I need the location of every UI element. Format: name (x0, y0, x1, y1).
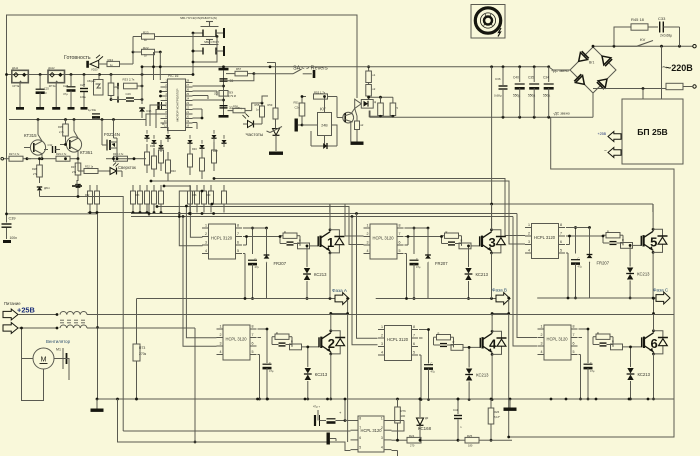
wire ch4 pin2 feed (357, 214, 378, 339)
svg-text:R63: R63 (135, 194, 140, 197)
svg-text:КС213: КС213 (638, 372, 651, 377)
svg-text:5: 5 (399, 249, 401, 253)
diode VD FR207 ch3 (425, 228, 448, 299)
svg-text:8: 8 (413, 325, 415, 329)
transistor VT5 IGBT (641, 228, 667, 254)
zener VD KC213 ch4 (465, 346, 489, 400)
svg-text:КР 5в: КР 5в (49, 84, 56, 88)
svg-text:R76: R76 (401, 409, 407, 413)
op-amp U9 HCPL3120 bottom (351, 416, 392, 452)
wire emitter ch1 (329, 253, 331, 299)
svg-text:7: 7 (413, 334, 415, 338)
svg-text:ДА11: ДА11 (12, 66, 19, 70)
wire emitter down ch4 (427, 354, 493, 401)
svg-text:КТ361: КТ361 (80, 150, 93, 155)
svg-text:С: С (590, 361, 592, 365)
svg-text:С2п: С2п (295, 106, 301, 110)
wire -DC rail (370, 111, 593, 119)
voltage regulator DA2 (48, 66, 65, 88)
wire top-left frame (7, 15, 358, 214)
capacitor C33b (88, 108, 100, 120)
svg-text:R: R (438, 332, 440, 336)
wire pin8 ch4 (419, 328, 430, 355)
wire vertical x160 (159, 52, 161, 80)
svg-text:С: С (431, 362, 433, 366)
svg-text:С: С (578, 257, 580, 261)
svg-text:3: 3 (381, 436, 383, 440)
svg-text:6: 6 (237, 241, 239, 245)
svg-text:⊥: ⊥ (427, 261, 429, 264)
transistor VT2 IGBT (319, 329, 345, 355)
logo ring (475, 8, 500, 33)
resistor R57 (226, 67, 255, 81)
resistor R24b (392, 434, 459, 448)
wire collector ch3 (491, 204, 493, 230)
svg-text:1: 1 (327, 235, 334, 250)
svg-text:С34: С34 (543, 76, 549, 80)
label -DC zveno (553, 112, 570, 116)
capacitor C ch1 (248, 227, 259, 300)
svg-text:R69: R69 (206, 194, 211, 197)
core dashes (60, 320, 87, 323)
resistor R gate ch4 (434, 332, 481, 351)
resistor R27 (1, 152, 31, 161)
svg-text:100: 100 (401, 414, 406, 418)
svg-text:SB1 ПУСК(ON)РАБОТА(N): SB1 ПУСК(ON)РАБОТА(N) (180, 16, 217, 20)
IC U1 right pins (186, 79, 193, 128)
svg-text:R35: R35 (58, 125, 63, 129)
svg-text:47µ +: 47µ + (313, 405, 320, 409)
svg-text:R25: R25 (467, 434, 473, 438)
svg-text:7: 7 (252, 333, 254, 337)
svg-text:6: 6 (560, 240, 562, 244)
fan motor M1 (24, 339, 71, 369)
svg-text:7: 7 (237, 232, 239, 236)
svg-text:С: С (269, 361, 271, 365)
capacitor C30 plate (159, 102, 167, 109)
wire collector ch6 (652, 297, 655, 331)
transistor VT1 IGBT (318, 228, 344, 254)
svg-text:С41: С41 (453, 408, 459, 412)
svg-text:Фаза С: Фаза С (653, 288, 669, 293)
wire 220V top (613, 45, 697, 48)
wire top rail left end (141, 65, 144, 86)
svg-text:3: 3 (489, 235, 496, 250)
label SB1 (180, 16, 217, 20)
capacitor C21 33 (220, 79, 234, 83)
svg-text:С33: С33 (658, 16, 666, 21)
svg-text:3: 3 (367, 241, 369, 245)
resistor R54 (366, 65, 376, 82)
svg-text:47µ: 47µ (431, 370, 436, 374)
wire xtal column (222, 71, 225, 117)
wire bottom bus y399 (96, 398, 674, 401)
wire fan drop (20, 327, 23, 359)
svg-text:47µ: 47µ (590, 369, 595, 373)
wire pins67 ch5 (566, 235, 604, 245)
svg-text:R32 1к: R32 1к (85, 165, 94, 169)
wire IC pin drops (146, 90, 168, 130)
capacitor C42 (313, 405, 326, 427)
node Фаза С (653, 288, 670, 305)
svg-text:к1: к1 (373, 73, 376, 77)
resistor R25b (458, 434, 512, 448)
svg-text:1: 1 (381, 417, 383, 421)
wire ch6 pin3 feed (513, 217, 537, 347)
svg-text:Частоты: Частоты (246, 132, 264, 137)
svg-text:+25В: +25В (598, 132, 607, 136)
op-amp U4 HCPL3120 (378, 325, 418, 360)
svg-text:R33 2,7к: R33 2,7к (123, 78, 136, 82)
capacitor C22 bottom bar (219, 115, 229, 118)
transistor VT3 IGBT (480, 228, 506, 254)
svg-text:R37: R37 (71, 165, 76, 169)
svg-text:Фаза В: Фаза В (492, 288, 507, 293)
capacitor C39 (2, 214, 18, 243)
resistor R32 (78, 159, 110, 174)
diode VD19 (75, 175, 80, 198)
resistor bank lower (85, 185, 227, 213)
ground DA2 (52, 83, 60, 110)
svg-text:R45 18: R45 18 (631, 17, 645, 22)
svg-text:R: R (597, 331, 599, 335)
svg-text:С35: С35 (528, 76, 534, 80)
resistor R gate ch2 (272, 331, 319, 350)
svg-text:С40: С40 (513, 76, 519, 80)
svg-text:FR207: FR207 (597, 261, 610, 266)
wire +DC down (491, 67, 493, 230)
svg-text:R: R (446, 230, 448, 234)
wire xtal pin b (193, 99, 224, 101)
arrow minus PSU (608, 148, 621, 158)
svg-text:-ДС звено: -ДС звено (553, 112, 570, 116)
svg-text:3: 3 (220, 342, 222, 346)
svg-text:R: R (453, 340, 455, 344)
switch SA (254, 69, 314, 78)
ground Q3 (351, 122, 364, 145)
wire gate bus y204 (211, 203, 364, 236)
svg-text:4: 4 (528, 249, 530, 253)
wire collector ch1 (329, 204, 331, 230)
svg-text:С32: С32 (48, 143, 53, 147)
svg-text:100н: 100н (80, 95, 86, 99)
wire bridge bottom to -DC (592, 93, 594, 117)
wire pin8 ch1 (243, 227, 268, 230)
svg-text:24В: 24В (321, 124, 328, 128)
wire ch2 pin2 feed (185, 205, 217, 338)
wire emitter ch5 (652, 252, 654, 298)
svg-text:М: М (41, 357, 47, 364)
capacitor C ch5 (571, 226, 582, 299)
wire bus y431 (123, 430, 350, 432)
zener VD17 (37, 187, 50, 197)
wire opto loop (367, 96, 394, 118)
ground pot (269, 152, 283, 155)
wire pin5 drop ch4 (419, 355, 422, 401)
zener VD KC213 ch6 (627, 346, 651, 400)
LED VD18 overcurrent (110, 163, 136, 178)
transistor Q3 (332, 97, 355, 124)
diode VD16 (139, 86, 152, 118)
label Готовность (64, 55, 91, 61)
svg-text:⊥: ⊥ (589, 261, 591, 264)
svg-text:КС213: КС213 (637, 272, 650, 277)
inductor L2 (18, 325, 195, 329)
ground bottom mid (504, 399, 517, 411)
svg-text:2: 2 (220, 333, 222, 337)
svg-text:HCPL 3120: HCPL 3120 (387, 337, 409, 342)
zener VD KC168 (417, 398, 432, 442)
svg-text:3,79 М: 3,79 М (228, 94, 236, 98)
wire 220V bottom (593, 85, 696, 90)
svg-text:Д0: Д0 (425, 416, 429, 420)
svg-text:3: 3 (528, 240, 530, 244)
svg-text:R28: R28 (32, 167, 37, 171)
battery bar KV (295, 119, 304, 132)
svg-text:550µ: 550µ (528, 94, 535, 98)
wire bridge left to +DC (549, 67, 570, 70)
ground mid bank (72, 180, 82, 186)
label SA Revers (293, 66, 328, 72)
op-amp U6 HCPL3120 (538, 325, 578, 360)
capacitor C40 (513, 67, 525, 117)
svg-text:FR207: FR207 (435, 261, 448, 266)
wire C39 bus (5, 213, 97, 216)
wire coil return drop (194, 328, 197, 443)
svg-text:R73: R73 (139, 346, 145, 350)
svg-text:R: R (299, 239, 301, 243)
svg-text:C27: C27 (80, 83, 86, 87)
svg-text:Вентилятор: Вентилятор (46, 339, 71, 344)
wire vertical x153.5 (153, 52, 155, 80)
svg-text:HCPL 3120: HCPL 3120 (211, 236, 233, 241)
svg-text:47µ: 47µ (255, 265, 260, 269)
svg-text:+25В: +25В (17, 306, 35, 315)
svg-text:R22: R22 (143, 46, 149, 50)
svg-text:1: 1 (541, 325, 543, 329)
svg-text:КС213: КС213 (315, 372, 328, 377)
svg-text:КС168: КС168 (418, 426, 432, 431)
svg-text:1µ 50в: 1µ 50в (88, 108, 97, 112)
wire pins67 ch3 (405, 235, 443, 245)
wire VD17 line (40, 197, 124, 432)
svg-text:8: 8 (560, 223, 562, 227)
svg-text:R68: R68 (192, 194, 197, 197)
svg-text:1: 1 (528, 223, 530, 227)
LED VD frequency (243, 114, 263, 128)
resistor R61 (390, 103, 398, 116)
capacitor C35 (528, 67, 539, 117)
resistor R55 (366, 83, 376, 100)
svg-text:2х0,68µ: 2х0,68µ (660, 34, 672, 38)
wire emitter bus ch5 (537, 253, 668, 299)
pushbutton SB1 (192, 22, 224, 39)
svg-text:47µ: 47µ (269, 369, 274, 373)
wire rail y119 (9, 118, 146, 121)
diode VD KV (311, 125, 337, 149)
wire emitter down ch6 (587, 354, 655, 401)
svg-text:6: 6 (359, 436, 361, 440)
inductor L1 (18, 312, 87, 316)
wire emitter down ch2 (266, 354, 333, 401)
svg-text:к2: к2 (373, 87, 376, 91)
svg-text:БП 25В: БП 25В (637, 127, 668, 137)
svg-text:2: 2 (381, 334, 383, 338)
ground bottom left (91, 399, 104, 412)
node Фаза В (492, 288, 510, 305)
svg-text:С36: С36 (495, 77, 501, 81)
svg-text:R: R (622, 238, 624, 242)
resistor R23 (133, 31, 218, 43)
crystal ZQ1 (214, 91, 236, 98)
capacitor C ch3 (410, 227, 421, 300)
label ~220V (662, 62, 693, 73)
label Частоты (246, 132, 264, 137)
arrow 0V (3, 323, 18, 334)
svg-text:5: 5 (573, 350, 575, 354)
svg-text:Фаза А: Фаза А (332, 288, 348, 293)
svg-text:С: С (255, 257, 257, 261)
svg-text:2: 2 (381, 426, 383, 430)
svg-text:PIC 16: PIC 16 (168, 74, 178, 78)
svg-text:7: 7 (560, 232, 562, 236)
label SB2 (204, 40, 219, 44)
svg-text:6: 6 (413, 342, 415, 346)
resistor R gate ch3 (442, 230, 480, 249)
label +DC zveno (551, 69, 569, 73)
svg-text:R: R (276, 331, 278, 335)
svg-text:550µ: 550µ (543, 94, 550, 98)
svg-text:R40: R40 (171, 169, 176, 173)
svg-text:4: 4 (381, 351, 383, 355)
svg-text:R: R (291, 340, 293, 344)
wire pin8 ch2 (258, 328, 269, 355)
diode VD FR207 ch5 (587, 228, 610, 299)
wire gate bus y191 (178, 190, 204, 246)
wire gate bus y186 (163, 185, 203, 238)
capacitor C27 (80, 75, 88, 110)
svg-text:6: 6 (252, 342, 254, 346)
wire +DC collector line (131, 203, 653, 215)
capacitor C25 (36, 75, 50, 110)
svg-text:0,68µ: 0,68µ (494, 94, 502, 98)
diode row VD2-VD11 (144, 130, 226, 152)
resistor R37 (71, 159, 81, 175)
svg-text:F0Z34N: F0Z34N (104, 132, 120, 137)
svg-text:R62: R62 (85, 194, 90, 197)
LED VD20 Готовность (86, 55, 103, 72)
IC U1 left pins (161, 79, 168, 128)
svg-text:R47: R47 (213, 149, 218, 153)
svg-text:R: R (612, 340, 614, 344)
svg-text:КР 5в: КР 5в (13, 84, 20, 88)
wire gate bus y181 (150, 180, 525, 244)
wire bottom of banks (88, 211, 163, 214)
svg-text:180: 180 (468, 444, 473, 448)
svg-text:FR207: FR207 (274, 261, 287, 266)
wire ch7 right pins (392, 421, 405, 456)
svg-text:8: 8 (359, 417, 361, 421)
svg-text:2: 2 (328, 336, 335, 351)
arrow +25V (3, 309, 18, 320)
resistor R gate ch1 (280, 230, 318, 249)
svg-text:R30 2,7к: R30 2,7к (113, 152, 124, 156)
resistor R34 (99, 58, 120, 67)
svg-text:С29: С29 (126, 92, 132, 96)
zener VD KC213 ch2 (304, 346, 328, 400)
wire SA pot drop (267, 63, 276, 109)
svg-text:47µ: 47µ (416, 265, 421, 269)
svg-text:~: ~ (662, 62, 667, 72)
svg-text:HCPL 3120: HCPL 3120 (534, 235, 556, 240)
zener VD KC213 ch5 (626, 244, 650, 299)
wire x97 drop (96, 214, 99, 400)
svg-text:R: R (607, 230, 609, 234)
svg-text:HCPL 3120: HCPL 3120 (361, 428, 383, 433)
svg-text:2: 2 (367, 232, 369, 236)
svg-text:5: 5 (650, 235, 657, 250)
capacitor C32 (44, 143, 60, 153)
voltage regulator DA1 (12, 66, 29, 88)
wire collector ch2 (329, 312, 332, 331)
op-amp U1 HCPL3120 (202, 224, 242, 259)
diode VD FR207 ch1 (264, 228, 287, 299)
wire IC right fanout (193, 91, 218, 129)
wire ch6 pin2 feed (517, 214, 537, 338)
svg-text:VD20: VD20 (91, 68, 98, 72)
capacitor C ch6 (584, 355, 595, 399)
wire pin8 ch6 (579, 328, 590, 355)
fuse FU1 (666, 83, 683, 89)
svg-text:R27 2,7к: R27 2,7к (9, 152, 20, 156)
svg-text:5: 5 (413, 351, 415, 355)
resistor R33 (118, 78, 143, 90)
wire collector ch5 (652, 204, 654, 229)
svg-text:5: 5 (359, 446, 361, 450)
svg-text:R53 1,7к: R53 1,7к (314, 91, 326, 95)
resistor R29 (27, 152, 79, 161)
svg-text:С39: С39 (9, 217, 16, 221)
resistor R55b (255, 102, 265, 124)
svg-text:МОТОР КОНТРОЛЛЕР: МОТОР КОНТРОЛЛЕР (176, 89, 180, 122)
svg-text:5: 5 (560, 249, 562, 253)
svg-text:KV: KV (640, 37, 646, 42)
capacitor C ch4 (424, 356, 435, 400)
svg-text:4: 4 (381, 446, 383, 450)
wire phase A drop (346, 297, 349, 442)
capacitor C33 (658, 16, 680, 46)
svg-text:КС213: КС213 (476, 373, 489, 378)
svg-text:−: − (604, 149, 607, 155)
zener VD KC213 ch3 (465, 245, 489, 300)
wire row2 collector bus (329, 312, 508, 315)
transistor VT2 KT361 (60, 120, 93, 159)
svg-text:2: 2 (541, 333, 543, 337)
wire ch2 pin3 feed (183, 217, 217, 347)
svg-text:5: 5 (237, 249, 239, 253)
wire PSU AC feeds (643, 46, 662, 99)
svg-text:КТ315: КТ315 (24, 133, 37, 138)
svg-text:М1: М1 (56, 348, 61, 352)
svg-text:R36: R36 (150, 144, 155, 148)
svg-text:3: 3 (205, 241, 207, 245)
transistor VT6 IGBT (642, 329, 668, 355)
wire R34 to bus (120, 51, 135, 64)
wire r59 up (262, 96, 268, 103)
svg-text:8: 8 (573, 325, 575, 329)
svg-text:6: 6 (399, 241, 401, 245)
mosfet Q4 F0Z34N (102, 120, 134, 161)
